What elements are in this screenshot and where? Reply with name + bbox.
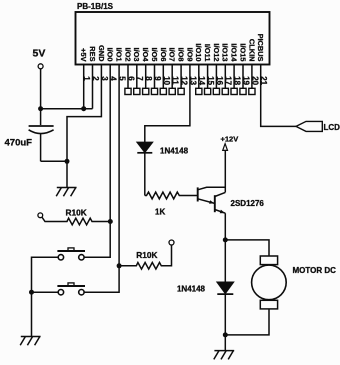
svg-text:MOTOR DC: MOTOR DC — [293, 266, 337, 275]
svg-text:I/O13: I/O13 — [221, 43, 230, 61]
svg-text:17: 17 — [224, 76, 233, 85]
svg-text:I/O7: I/O7 — [168, 48, 177, 62]
svg-text:R10K: R10K — [136, 250, 157, 260]
svg-text:I/O1: I/O1 — [115, 48, 124, 62]
svg-text:I/O2: I/O2 — [123, 48, 132, 62]
svg-text:12: 12 — [180, 76, 189, 85]
svg-text:470uF: 470uF — [5, 137, 33, 148]
svg-text:13: 13 — [188, 76, 197, 85]
svg-text:2: 2 — [91, 76, 100, 81]
svg-text:PICBUS: PICBUS — [256, 34, 265, 62]
svg-text:1N4148: 1N4148 — [177, 285, 206, 294]
svg-text:I/O15: I/O15 — [238, 43, 247, 61]
svg-text:+5V: +5V — [79, 48, 88, 61]
svg-text:I/O4: I/O4 — [141, 48, 150, 63]
svg-text:5: 5 — [118, 76, 127, 81]
svg-text:LCD: LCD — [324, 123, 340, 132]
svg-text:I/O0: I/O0 — [106, 48, 115, 62]
svg-text:18: 18 — [233, 76, 242, 85]
svg-text:11: 11 — [171, 76, 180, 85]
svg-text:RES: RES — [88, 46, 97, 61]
svg-text:GND: GND — [97, 45, 106, 62]
svg-text:I/O11: I/O11 — [203, 44, 212, 62]
svg-text:I/O10: I/O10 — [194, 43, 203, 61]
svg-text:2SD1276: 2SD1276 — [231, 199, 265, 208]
svg-text:10: 10 — [162, 76, 171, 85]
svg-text:PB-1B/1S: PB-1B/1S — [77, 2, 114, 11]
svg-text:5V: 5V — [33, 48, 46, 60]
svg-text:16: 16 — [215, 76, 224, 85]
svg-text:6: 6 — [126, 76, 135, 81]
svg-text:15: 15 — [206, 76, 215, 85]
svg-text:19: 19 — [241, 76, 250, 85]
svg-text:I/O14: I/O14 — [230, 43, 239, 62]
svg-text:21: 21 — [259, 76, 268, 85]
svg-text:9: 9 — [153, 76, 162, 81]
svg-text:4: 4 — [109, 76, 118, 81]
svg-text:3: 3 — [100, 76, 109, 81]
svg-text:I/O5: I/O5 — [150, 48, 159, 62]
svg-text:I/O3: I/O3 — [132, 48, 141, 62]
svg-text:8: 8 — [144, 76, 153, 81]
svg-text:CLKIN: CLKIN — [247, 39, 256, 62]
svg-text:I/O6: I/O6 — [159, 48, 168, 62]
svg-text:1K: 1K — [155, 208, 165, 217]
svg-text:20: 20 — [250, 76, 259, 85]
svg-text:14: 14 — [197, 76, 206, 85]
svg-text:7: 7 — [135, 76, 144, 81]
svg-text:1: 1 — [82, 76, 91, 81]
svg-text:+12V: +12V — [221, 134, 239, 143]
svg-text:I/O12: I/O12 — [212, 43, 221, 61]
svg-text:1N4148: 1N4148 — [160, 147, 189, 156]
svg-text:I/O9: I/O9 — [185, 48, 194, 62]
svg-text:R10K: R10K — [66, 208, 87, 218]
svg-text:I/O8: I/O8 — [177, 48, 186, 62]
